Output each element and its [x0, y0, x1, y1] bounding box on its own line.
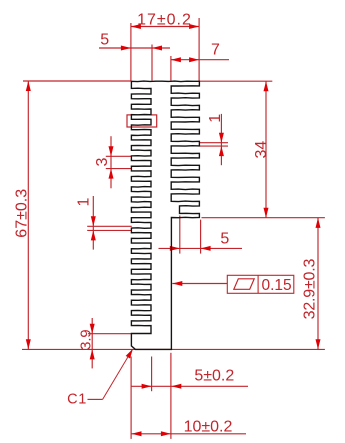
svg-text:10±0.2: 10±0.2 — [184, 419, 233, 436]
svg-text:1: 1 — [76, 197, 93, 206]
svg-text:32.9±0.3: 32.9±0.3 — [302, 259, 319, 320]
svg-text:34: 34 — [253, 141, 270, 159]
svg-text:5±0.2: 5±0.2 — [194, 368, 234, 385]
svg-text:7: 7 — [211, 42, 220, 59]
svg-text:C1: C1 — [67, 392, 87, 408]
svg-text:17±0.2: 17±0.2 — [137, 12, 192, 29]
svg-text:1: 1 — [207, 114, 224, 123]
svg-text:5: 5 — [100, 31, 109, 48]
svg-text:3.9: 3.9 — [77, 330, 94, 350]
svg-text:0.15: 0.15 — [262, 277, 292, 294]
svg-text:5: 5 — [220, 231, 229, 248]
svg-text:3: 3 — [94, 157, 111, 166]
svg-text:67±0.3: 67±0.3 — [13, 189, 30, 238]
